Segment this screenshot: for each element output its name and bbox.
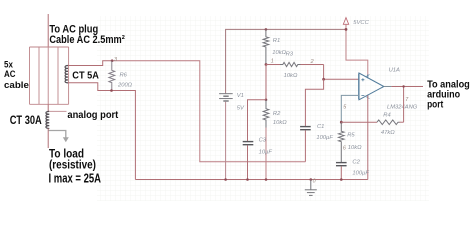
wire: op-amp V- to ground bus (367, 95, 369, 179)
svg-text:AC: AC (4, 69, 16, 79)
svg-text:47kΩ: 47kΩ (381, 130, 395, 136)
power 5VCC symbol (343, 18, 348, 25)
transformer CT 30A coil (46, 111, 49, 128)
svg-text:3: 3 (114, 57, 117, 63)
svg-text:C1: C1 (317, 124, 324, 130)
battery V1 (219, 94, 233, 101)
transformer CT 5A coil (65, 66, 68, 83)
svg-text:LM324ANG: LM324ANG (387, 105, 418, 111)
wire: node 1 down to R2/C3 tee (265, 65, 267, 100)
resistor R3 (266, 64, 280, 66)
wire: CT 30A bottom to load (47, 128, 49, 148)
svg-text:C2: C2 (352, 160, 360, 166)
svg-text:R6: R6 (120, 73, 128, 79)
svg-text:1: 1 (271, 59, 274, 65)
svg-text:10kΩ: 10kΩ (273, 120, 287, 126)
wire: CT5A bottom to bus corner (68, 83, 135, 180)
wire: tee to C3 top (248, 100, 267, 141)
junction: plus input branch (322, 78, 325, 81)
wire: bundle to CT 30A (47, 104, 49, 111)
svg-text:cable: cable (4, 80, 29, 90)
wire: node 2 branch to C1 top (305, 79, 323, 126)
junction: R6 bottom (110, 89, 113, 92)
svg-text:100µF: 100µF (316, 135, 333, 141)
capacitor C1 (300, 127, 311, 130)
junction: R1 top (265, 28, 268, 31)
capacitor C3 (243, 142, 254, 145)
wire: C3 bottom to bus (247, 145, 249, 179)
svg-text:R5: R5 (347, 132, 355, 138)
capacitor C2 (336, 163, 347, 166)
junction: output feedback tap (402, 85, 404, 87)
resistor R4 (377, 120, 400, 125)
svg-text:10µF: 10µF (259, 149, 273, 155)
ground node 0 (310, 178, 313, 181)
svg-text:I max = 25A: I max = 25A (49, 172, 102, 186)
resistor R2 (263, 100, 269, 128)
svg-text:analog port: analog port (67, 110, 118, 121)
junction: VCC rail (345, 28, 348, 31)
resistor R6 (109, 61, 115, 91)
junction: tee at V1 level (265, 99, 268, 102)
svg-text:port: port (427, 100, 444, 111)
annotation arrow (gray) to analog port (49, 131, 66, 138)
svg-text:5x: 5x (4, 59, 13, 69)
wire: op-amp output (391, 86, 423, 88)
ground bus wire (135, 179, 367, 181)
wire: CT5A top to node 3 (68, 61, 112, 66)
node 1 junction (265, 63, 268, 66)
wire: V1 plus to VCC rail (226, 29, 346, 93)
svg-text:5V: 5V (237, 105, 245, 111)
svg-text:R3: R3 (286, 51, 294, 57)
node 3 junction (111, 59, 114, 62)
wire: R4 to output (403, 87, 405, 123)
svg-text:100µF: 100µF (352, 171, 369, 177)
wire: V1 minus to ground bus (225, 102, 227, 180)
svg-text:10kΩ: 10kΩ (348, 145, 362, 151)
wire: C2 bottom to bus (340, 166, 342, 179)
wire: R5/R4 node to R4 (341, 121, 377, 123)
svg-text:200Ω: 200Ω (117, 82, 133, 88)
svg-text:0: 0 (313, 179, 316, 185)
junction: V1 minus at bus (224, 178, 227, 181)
svg-text:(resistive): (resistive) (49, 157, 96, 171)
svg-text:CT 30A: CT 30A (10, 113, 42, 127)
ground symbol (305, 180, 317, 196)
junction: R5/R4 node (340, 121, 343, 124)
svg-text:10kΩ: 10kΩ (272, 50, 286, 56)
wire: CT 30A top stub (49, 110, 66, 112)
svg-text:CT 5A: CT 5A (72, 71, 99, 82)
svg-text:5VCC: 5VCC (353, 20, 369, 26)
junction: C3 at bus (246, 178, 249, 181)
svg-text:C3: C3 (259, 138, 267, 144)
wire: minus input to R5/R4 node (341, 95, 359, 122)
wire: op-amp output pin stub (384, 86, 392, 88)
junction: R2 at bus (265, 178, 268, 181)
resistor R5 (338, 122, 344, 162)
5x AC cable bundle wires (30, 47, 69, 104)
svg-text:R1: R1 (273, 38, 280, 44)
op-amp U1A (359, 73, 384, 100)
svg-text:10kΩ: 10kΩ (284, 73, 298, 79)
wire: node 2 to op-amp plus input (324, 65, 359, 80)
wire: node 3 to C1 bottom (long run) (112, 61, 305, 162)
svg-text:Cable AC 2.5mm²: Cable AC 2.5mm² (49, 34, 125, 46)
svg-text:6: 6 (343, 146, 346, 152)
svg-text:U1A: U1A (389, 67, 400, 73)
svg-text:2: 2 (310, 59, 314, 65)
resistor R1 (263, 29, 269, 64)
svg-text:R4: R4 (383, 112, 390, 118)
svg-text:V1: V1 (237, 93, 244, 99)
wire: riser to AC plug (47, 14, 49, 47)
wire: VCC to op-amp V+ (346, 24, 368, 76)
junction: C2 at bus (340, 178, 343, 181)
wire: C1 bottom lead (304, 130, 306, 161)
svg-text:R2: R2 (273, 111, 281, 117)
